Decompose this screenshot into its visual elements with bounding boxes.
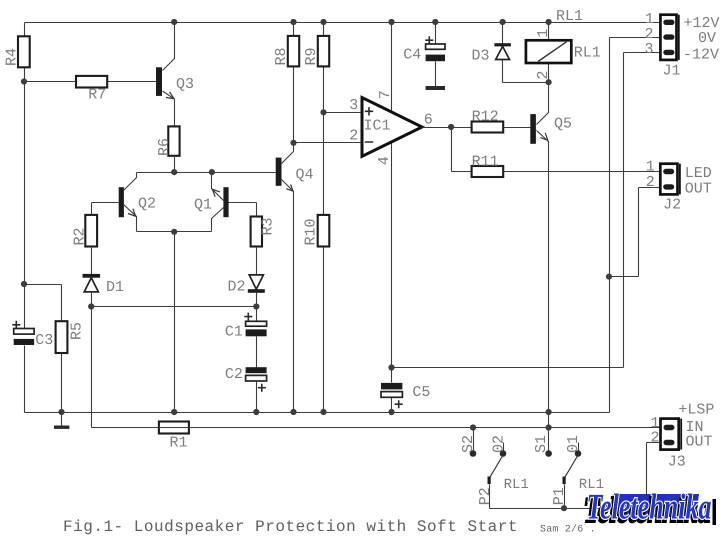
svg-text:P2: P2	[477, 487, 494, 505]
wire output to R11	[452, 128, 472, 172]
svg-text:OUT: OUT	[685, 181, 712, 198]
wire Q2 collector	[124, 173, 137, 191]
node R9/R10/pin3 junction	[320, 109, 326, 115]
node D2/C1 junction	[253, 303, 259, 309]
svg-text:RL1: RL1	[574, 45, 601, 62]
capacitor C3	[12, 321, 53, 349]
wire C1-C2	[256, 337, 258, 368]
wire C2 bottom	[256, 382, 258, 413]
svg-text:D3: D3	[472, 47, 490, 64]
wire D1 bottom	[91, 292, 93, 307]
svg-text:Fig.1- Loudspeaker Protection: Fig.1- Loudspeaker Protection with Soft …	[63, 518, 518, 536]
connector J3	[651, 402, 715, 471]
diode D2	[228, 275, 265, 296]
svg-text:2: 2	[349, 128, 358, 145]
wire Q4 emitter	[282, 180, 294, 413]
node R10 on rail	[320, 409, 326, 415]
wire Q4 collector	[282, 143, 294, 164]
capacitor C2	[225, 366, 267, 392]
node R8 on rail	[290, 19, 296, 25]
svg-text:S1: S1	[533, 435, 550, 453]
svg-text:C2: C2	[225, 366, 243, 383]
watermark Teletechnika	[584, 487, 717, 531]
svg-text:J1: J1	[663, 62, 681, 79]
node D1 junction	[88, 303, 94, 309]
wire -12V line	[392, 53, 661, 368]
svg-text:J2: J2	[663, 196, 681, 213]
wire J2 pin2	[610, 188, 661, 277]
wire Q5 collector	[537, 83, 549, 125]
wire diff pair top / Q4 base	[137, 172, 276, 174]
wire J3 pin2 to contacts	[490, 443, 661, 509]
svg-text:P1: P1	[551, 487, 568, 505]
wire diff pair bottom	[137, 231, 212, 233]
node S2 tap on R1 line	[470, 424, 476, 430]
svg-text:OUT: OUT	[686, 434, 713, 451]
svg-text:R6: R6	[156, 138, 173, 156]
resistor R6	[156, 126, 180, 156]
svg-text:2: 2	[646, 174, 655, 191]
svg-text:Q3: Q3	[176, 76, 194, 93]
resistor R7	[76, 76, 107, 104]
svg-text:Q5: Q5	[554, 115, 572, 132]
relay contact arm P1	[551, 457, 604, 509]
svg-text:C4: C4	[403, 46, 421, 63]
node C5/pin4 junction	[388, 364, 394, 370]
wire Q5 emitter	[537, 131, 549, 451]
resistor R9	[303, 23, 329, 113]
svg-text:R12: R12	[472, 108, 499, 125]
resistor R2	[72, 215, 98, 247]
wire op-amp pin2	[294, 142, 363, 144]
svg-text:R5: R5	[69, 322, 86, 340]
svg-text:R9: R9	[303, 47, 320, 65]
node P1 junction	[561, 505, 567, 511]
resistor R1	[159, 422, 189, 452]
svg-text:Teletehnika: Teletehnika	[587, 487, 712, 527]
wire R6 bottom	[174, 156, 176, 173]
transistor Q5	[530, 83, 572, 451]
transistor Q2	[92, 173, 157, 232]
resistor R12	[472, 108, 504, 132]
svg-text:C3: C3	[35, 332, 53, 349]
resistor R4	[4, 36, 30, 67]
svg-text:D2: D2	[228, 279, 246, 296]
relay coil RL1	[526, 23, 601, 83]
wire op-amp pin4	[391, 142, 393, 368]
node Q5 emitter on R1 line	[546, 424, 552, 430]
node D3 on rail	[500, 19, 506, 25]
svg-text:Q1: Q1	[194, 197, 212, 214]
svg-text:Q2: Q2	[138, 196, 156, 213]
diode D1	[83, 274, 125, 296]
svg-text:3: 3	[645, 41, 654, 58]
transistor Q3	[156, 23, 194, 127]
connector J2	[646, 159, 712, 214]
wire R2 bottom	[91, 247, 93, 275]
svg-text:Q4: Q4	[296, 167, 314, 184]
node C2 on rail	[253, 409, 259, 415]
svg-text:R2: R2	[72, 227, 89, 245]
svg-text:D1: D1	[106, 279, 124, 296]
resistor R8	[273, 23, 299, 143]
node C5 on rail	[388, 409, 394, 415]
transistor Q1	[194, 173, 257, 232]
svg-text:LED: LED	[685, 165, 712, 182]
node J2 return junction	[606, 274, 612, 280]
svg-text:R1: R1	[170, 435, 188, 452]
wire Q2 emitter	[124, 205, 137, 232]
wire 0V from J1	[610, 38, 661, 413]
node diff tail junction	[171, 229, 177, 235]
node R5 on rail	[58, 409, 64, 415]
node R9 on rail	[320, 19, 326, 25]
node C3/R5 junction	[21, 281, 27, 287]
node Q1 emitter junction	[209, 169, 215, 175]
wire down to R1	[91, 307, 93, 428]
wire diff tail down	[174, 232, 176, 413]
node Q4 emitter on rail	[290, 409, 296, 415]
wire Q1 collector	[212, 208, 224, 232]
contact O2 terminal	[491, 435, 508, 457]
node Q5 emitter on rail	[546, 409, 552, 415]
svg-text:+LSP: +LSP	[678, 402, 714, 419]
relay contact arm P2	[477, 457, 529, 509]
wire 0V bottom rail	[25, 412, 610, 414]
svg-text:02: 02	[491, 435, 508, 453]
svg-text:-12V: -12V	[683, 46, 719, 63]
capacitor C5	[381, 368, 430, 413]
wire R2 top	[91, 203, 93, 215]
contact S2 terminal	[470, 450, 477, 457]
svg-text:RL1: RL1	[504, 477, 529, 493]
wire op-amp pin7	[391, 23, 393, 113]
svg-text:0V: 0V	[698, 30, 716, 47]
svg-text:RL1: RL1	[556, 8, 583, 25]
svg-text:6: 6	[424, 111, 433, 128]
node pin7 on rail	[388, 19, 394, 25]
wire Q1 emitter	[212, 173, 224, 201]
wire D2 bottom	[256, 293, 258, 307]
connector J1	[645, 11, 720, 80]
svg-text:IC1: IC1	[364, 117, 391, 134]
resistor R10	[303, 113, 330, 413]
node R8/Q4/pin2 junction	[290, 140, 296, 146]
contact O1 terminal	[565, 435, 582, 457]
capacitor C4	[403, 23, 445, 91]
wire Q2 base	[92, 202, 119, 204]
transistor Q4	[276, 143, 314, 413]
wire R1 line	[92, 427, 661, 429]
wire left rail	[24, 23, 26, 413]
svg-text:3: 3	[349, 97, 358, 114]
svg-text:2: 2	[535, 70, 552, 79]
svg-text:C5: C5	[412, 384, 430, 401]
resistor R11	[472, 153, 504, 177]
node Q3 collector on rail	[171, 19, 177, 25]
capacitor C1	[225, 307, 267, 341]
svg-text:S2: S2	[460, 435, 477, 453]
resistor R3	[251, 217, 277, 247]
svg-text:2: 2	[651, 430, 660, 447]
node C4 on rail	[432, 19, 438, 25]
svg-text:R11: R11	[472, 153, 499, 170]
svg-text:C1: C1	[225, 324, 243, 341]
node diff tail on rail	[171, 409, 177, 415]
contact S1 terminal	[545, 450, 552, 457]
wire S2 stub	[473, 428, 475, 451]
svg-text:R8: R8	[273, 47, 290, 65]
wire D1-D2 node	[92, 306, 257, 308]
wire R5 bottom	[61, 354, 63, 413]
svg-text:4: 4	[376, 156, 393, 165]
op-amp IC1	[349, 90, 433, 165]
wire R7 tap	[25, 81, 157, 83]
wire op-amp output	[423, 127, 472, 129]
svg-text:R4: R4	[4, 48, 21, 66]
resistor R5	[25, 285, 86, 354]
diode D3	[472, 23, 549, 83]
ground	[54, 413, 69, 429]
svg-text:J3: J3	[668, 453, 686, 470]
node RL1 coil on rail	[546, 19, 552, 25]
node R6 junction	[171, 169, 177, 175]
svg-text:R7: R7	[88, 87, 106, 104]
node R4 tap junction	[21, 78, 27, 84]
svg-text:R10: R10	[303, 218, 320, 245]
wire R11 to J2	[504, 171, 661, 173]
wire op-amp pin3	[324, 112, 363, 114]
wire +12V top rail	[25, 22, 661, 24]
node coil/D3/Q5 junction	[546, 79, 552, 85]
wire R3 bottom	[256, 247, 258, 275]
wire Q1 base	[229, 203, 257, 217]
wire R12 to Q5	[504, 127, 531, 129]
svg-text:01: 01	[565, 435, 582, 453]
wire Q3 emitter	[163, 91, 175, 127]
svg-text:7: 7	[377, 90, 394, 99]
svg-text:1: 1	[535, 29, 552, 38]
wire Q3 collector	[163, 23, 175, 71]
svg-text:R3: R3	[260, 217, 277, 235]
node output junction	[448, 124, 454, 130]
